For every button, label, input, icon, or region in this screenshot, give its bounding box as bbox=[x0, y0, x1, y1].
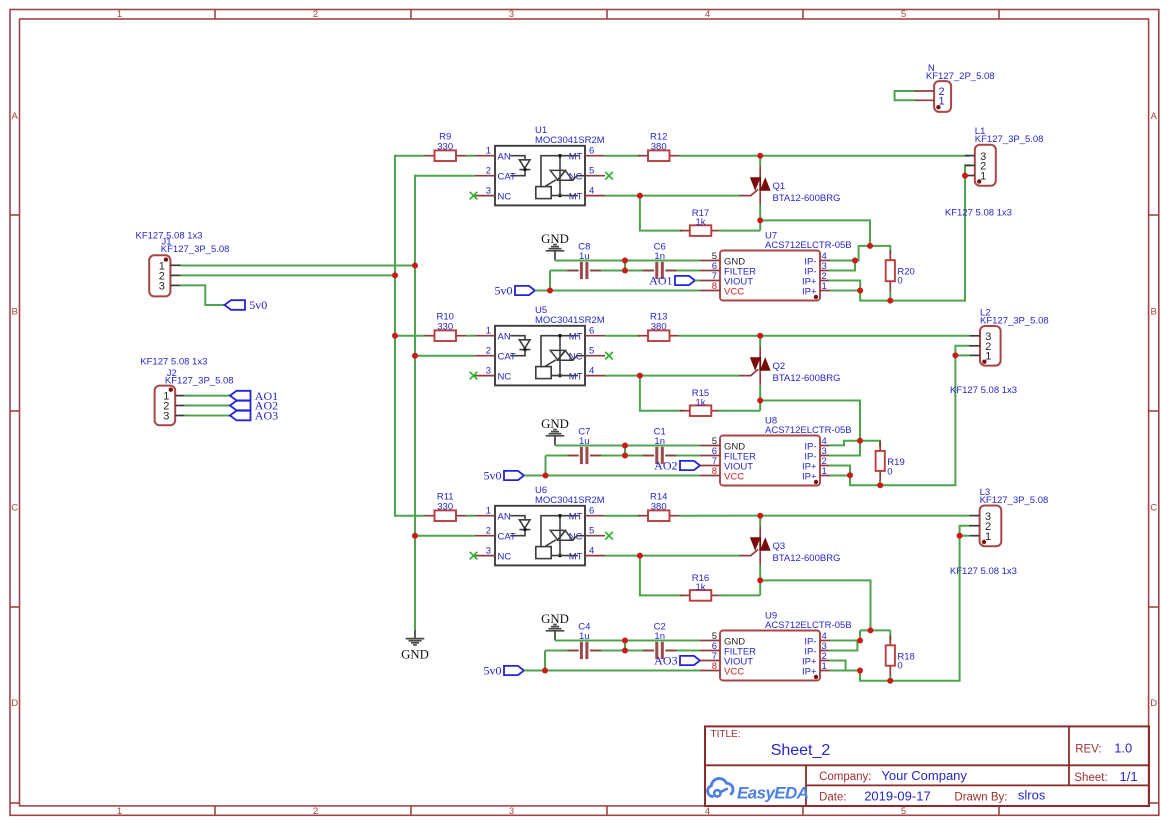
svg-text:C: C bbox=[1150, 502, 1157, 513]
capacitor C7 bbox=[568, 426, 602, 464]
svg-text:KF127_2P_5.08: KF127_2P_5.08 bbox=[926, 71, 995, 82]
wire L3 pin2 jog bbox=[960, 526, 970, 536]
svg-text:4: 4 bbox=[589, 185, 594, 196]
svg-text:1: 1 bbox=[117, 806, 122, 817]
svg-text:2: 2 bbox=[486, 346, 491, 357]
svg-text:3: 3 bbox=[163, 411, 169, 423]
svg-text:GND: GND bbox=[541, 417, 569, 431]
svg-text:AO3: AO3 bbox=[654, 654, 677, 668]
svg-text:MT: MT bbox=[569, 512, 583, 523]
wire J1 pin2 row bbox=[181, 274, 396, 276]
svg-text:1: 1 bbox=[486, 506, 491, 517]
svg-text:NC: NC bbox=[498, 551, 512, 562]
svg-text:KF127 5.08 1x3: KF127 5.08 1x3 bbox=[140, 357, 207, 368]
svg-text:Sheet:: Sheet: bbox=[1074, 772, 1107, 784]
junction bbox=[857, 288, 863, 294]
wire triac MT1 down bbox=[759, 205, 761, 230]
wire U8 pin4 jog bbox=[830, 441, 860, 446]
wire J2 to AO3 bbox=[185, 415, 230, 417]
junction bbox=[637, 373, 643, 379]
svg-text:Q3: Q3 bbox=[773, 541, 786, 552]
svg-text:0: 0 bbox=[897, 661, 902, 672]
resistor R17 bbox=[680, 208, 722, 236]
svg-text:5v0: 5v0 bbox=[484, 469, 502, 483]
svg-text:MT: MT bbox=[569, 332, 583, 343]
junction bbox=[412, 533, 418, 539]
wire U7 pin2 bbox=[830, 281, 860, 291]
wire node to pin4/pin3 bbox=[859, 246, 870, 261]
connector L2 labels bbox=[980, 307, 1049, 326]
svg-text:MT: MT bbox=[569, 191, 583, 202]
svg-text:KF127_3P_5.08: KF127_3P_5.08 bbox=[975, 134, 1044, 145]
wire gate loop left bbox=[640, 556, 682, 596]
svg-text:2: 2 bbox=[313, 806, 318, 817]
resistor R11 bbox=[425, 491, 467, 521]
svg-text:3: 3 bbox=[509, 806, 514, 817]
wire GND row bbox=[555, 260, 700, 262]
svg-text:VCC: VCC bbox=[724, 666, 744, 677]
wire node to R18 top bbox=[889, 630, 891, 640]
optocoupler U6 labels bbox=[535, 485, 605, 506]
IC U8 labels bbox=[765, 416, 852, 436]
svg-text:4: 4 bbox=[705, 9, 710, 20]
transistor Q1 BTA12-600BRG bbox=[740, 156, 840, 206]
resistor R9 bbox=[425, 131, 467, 161]
wire L1 pin2 jog bbox=[965, 165, 970, 175]
IC U7 ACS712ELCTR-05B bbox=[700, 251, 830, 301]
junction bbox=[622, 648, 628, 654]
wire U7 pin3 bbox=[830, 261, 855, 271]
net flag AO1 (J2) bbox=[230, 389, 278, 403]
transistor Q3 BTA12-600BRG bbox=[740, 516, 840, 566]
svg-text:1k: 1k bbox=[695, 397, 705, 408]
svg-text:MT: MT bbox=[569, 152, 583, 163]
wire gate loop left bbox=[640, 376, 682, 411]
svg-text:8: 8 bbox=[712, 466, 717, 477]
svg-text:EasyEDA: EasyEDA bbox=[737, 784, 809, 803]
svg-text:2: 2 bbox=[486, 526, 491, 537]
junction bbox=[392, 272, 398, 278]
wire GND row bbox=[555, 640, 700, 642]
wire trunk from J1 pin1 to GND (x=415) bbox=[414, 176, 416, 631]
svg-text:VCC: VCC bbox=[724, 471, 744, 482]
svg-text:5v0: 5v0 bbox=[495, 284, 513, 298]
wire U8 pin2 bbox=[830, 466, 850, 476]
resistor R15 bbox=[680, 388, 722, 416]
svg-text:KF127_3P_5.08: KF127_3P_5.08 bbox=[165, 375, 234, 386]
svg-text:2: 2 bbox=[486, 166, 491, 177]
wire R14 to L3 bbox=[679, 515, 969, 517]
connector N labels bbox=[926, 63, 995, 82]
svg-text:AN: AN bbox=[498, 152, 511, 163]
wire J2 to AO1 bbox=[185, 395, 230, 397]
svg-text:IP+: IP+ bbox=[802, 666, 817, 677]
svg-text:1: 1 bbox=[486, 326, 491, 337]
wire J1 pin1 row bbox=[181, 265, 416, 267]
junction bbox=[622, 453, 628, 459]
svg-text:MT: MT bbox=[569, 551, 583, 562]
EasyEDA logo bbox=[708, 778, 809, 802]
resistor R14 bbox=[638, 491, 680, 521]
wire J1 pin3 to 5v0 bbox=[181, 285, 225, 305]
net flag AO1 bbox=[649, 274, 695, 288]
svg-text:8: 8 bbox=[712, 661, 717, 672]
svg-text:1: 1 bbox=[822, 661, 827, 672]
svg-text:TITLE:: TITLE: bbox=[711, 729, 741, 740]
svg-text:A: A bbox=[12, 111, 19, 122]
optocoupler U1 labels bbox=[535, 125, 605, 146]
wire VIOUT row bbox=[695, 280, 700, 282]
capacitor C2 bbox=[643, 621, 677, 659]
connector L3 labels bbox=[980, 487, 1049, 506]
wire gate loop left bbox=[640, 196, 682, 231]
svg-text:GND: GND bbox=[401, 648, 429, 662]
junction bbox=[757, 333, 763, 339]
net flag AO3 (J2) bbox=[230, 409, 278, 423]
connector J1 bbox=[149, 255, 180, 296]
svg-text:ACS712ELCTR-05B: ACS712ELCTR-05B bbox=[765, 240, 852, 251]
svg-text:1u: 1u bbox=[579, 631, 590, 642]
junction bbox=[852, 258, 858, 264]
svg-text:Drawn By:: Drawn By: bbox=[954, 791, 1007, 803]
wire R20 bottom bbox=[889, 290, 891, 300]
net flag AO2 bbox=[654, 459, 700, 473]
wire VCC row bbox=[535, 290, 700, 292]
wire resistor to U pin1 bbox=[466, 335, 475, 337]
wire triac MT1 down bbox=[759, 565, 761, 595]
wire U8 pin1 bbox=[830, 475, 850, 477]
wire gate loop right bbox=[718, 594, 760, 596]
wire J2 to AO2 bbox=[185, 405, 230, 407]
resistor R12 bbox=[638, 131, 680, 161]
capacitor C1 bbox=[643, 426, 677, 464]
junction bbox=[637, 193, 643, 199]
svg-text:C: C bbox=[11, 502, 18, 513]
svg-text:1n: 1n bbox=[654, 436, 665, 447]
svg-text:BTA12-600BRG: BTA12-600BRG bbox=[773, 373, 841, 384]
connector L3 bbox=[969, 506, 1001, 547]
svg-text:Sheet_2: Sheet_2 bbox=[771, 742, 831, 759]
svg-text:3: 3 bbox=[486, 365, 491, 376]
junction bbox=[757, 577, 763, 583]
IC U8 ACS712ELCTR-05B bbox=[700, 436, 830, 486]
wire gate loop right bbox=[718, 230, 760, 232]
svg-text:330: 330 bbox=[437, 502, 453, 513]
svg-text:4: 4 bbox=[589, 365, 594, 376]
svg-text:1: 1 bbox=[822, 281, 827, 292]
svg-text:6: 6 bbox=[589, 326, 594, 337]
junction bbox=[622, 268, 628, 274]
net flag 5v0 (U8) bbox=[484, 469, 525, 483]
svg-text:0: 0 bbox=[897, 276, 902, 287]
svg-text:1: 1 bbox=[822, 466, 827, 477]
junction bbox=[867, 243, 873, 249]
ground (bottom of trunk) bbox=[401, 630, 429, 661]
junction bbox=[757, 217, 763, 223]
wire U8 pin3 bbox=[830, 441, 860, 456]
no-connect pin3 bbox=[470, 552, 478, 560]
junction bbox=[887, 678, 893, 684]
wire filter row segs bbox=[546, 446, 701, 476]
wire R9 row bbox=[395, 155, 425, 157]
wire node horizontal bbox=[860, 629, 890, 631]
wire U7 pin1 bbox=[830, 290, 860, 292]
svg-text:1: 1 bbox=[938, 95, 944, 107]
svg-text:AN: AN bbox=[498, 332, 511, 343]
svg-text:1u: 1u bbox=[579, 251, 590, 262]
svg-text:B: B bbox=[1151, 306, 1157, 317]
svg-text:5: 5 bbox=[589, 166, 594, 177]
junction bbox=[957, 533, 963, 539]
no-connect pin3 bbox=[470, 192, 478, 200]
svg-text:1: 1 bbox=[980, 171, 986, 183]
wire filter row segs bbox=[545, 641, 700, 671]
wire U9 pin4 bbox=[830, 640, 860, 642]
svg-text:4: 4 bbox=[705, 806, 710, 817]
connector N bbox=[915, 81, 951, 112]
ground (C7 group) bbox=[541, 417, 569, 446]
svg-text:IP+: IP+ bbox=[802, 471, 817, 482]
junction bbox=[857, 638, 863, 644]
wire Q3 MT1 to node bbox=[760, 580, 870, 630]
svg-text:380: 380 bbox=[651, 322, 667, 333]
connector L1 labels bbox=[975, 126, 1044, 145]
junction bbox=[637, 553, 643, 559]
wire U9 pin2 bbox=[830, 661, 860, 671]
wire node to R19 top bbox=[860, 441, 880, 446]
svg-text:1k: 1k bbox=[695, 582, 705, 593]
svg-text:BTA12-600BRG: BTA12-600BRG bbox=[773, 193, 841, 204]
svg-text:5v0: 5v0 bbox=[249, 298, 267, 312]
net flag 5v0 (U7) bbox=[495, 284, 536, 298]
junction bbox=[622, 443, 628, 449]
resistor R19 bbox=[876, 441, 905, 481]
resistor R18 bbox=[886, 635, 915, 675]
wire N pin2-pin1 loop bbox=[895, 91, 915, 100]
svg-text:6: 6 bbox=[589, 146, 594, 157]
wire pin6 to resistor bbox=[605, 155, 640, 157]
capacitor C6 bbox=[643, 241, 677, 279]
svg-text:Q2: Q2 bbox=[773, 361, 786, 372]
resistor R16 bbox=[680, 573, 722, 601]
IC U9 ACS712ELCTR-05B bbox=[700, 631, 830, 681]
capacitor C8 bbox=[568, 241, 602, 279]
junction bbox=[757, 398, 763, 404]
net flag AO2 (J2) bbox=[230, 399, 278, 413]
svg-text:1: 1 bbox=[486, 146, 491, 157]
svg-text:MT: MT bbox=[569, 371, 583, 382]
svg-text:Q1: Q1 bbox=[773, 181, 786, 192]
junction bbox=[412, 263, 418, 269]
wire R12 to L1 bbox=[679, 155, 970, 157]
IC U9 labels bbox=[765, 611, 852, 631]
svg-text:3: 3 bbox=[509, 9, 514, 20]
optocoupler U6 MOC3041SR2M bbox=[475, 506, 605, 566]
svg-text:5v0: 5v0 bbox=[484, 664, 502, 678]
svg-text:KF127_3P_5.08: KF127_3P_5.08 bbox=[980, 315, 1049, 326]
svg-text:1: 1 bbox=[985, 531, 991, 543]
title block bbox=[705, 726, 1149, 806]
svg-text:1n: 1n bbox=[654, 631, 665, 642]
wire trunk to CAT bbox=[415, 535, 475, 537]
wire L3 pin1 seg bbox=[960, 535, 970, 537]
wire pin4/gate row bbox=[605, 375, 740, 377]
svg-text:4: 4 bbox=[589, 545, 594, 556]
net flag AO3 bbox=[654, 654, 700, 668]
junction bbox=[952, 352, 958, 358]
wire R19 bottom bbox=[879, 480, 881, 486]
wire trunk from J1 pin2 (x=395) bbox=[394, 156, 396, 516]
svg-text:AO2: AO2 bbox=[654, 459, 677, 473]
svg-text:1: 1 bbox=[985, 351, 991, 363]
wire triac MT1 down bbox=[759, 385, 761, 410]
svg-text:2: 2 bbox=[313, 9, 318, 20]
svg-text:5: 5 bbox=[589, 346, 594, 357]
optocoupler U1 MOC3041SR2M bbox=[475, 146, 605, 206]
wire pin4/gate row bbox=[605, 555, 740, 557]
resistor R10 bbox=[425, 311, 467, 341]
svg-text:1/1: 1/1 bbox=[1120, 769, 1138, 784]
wire resistor to U pin1 bbox=[466, 155, 475, 157]
svg-text:330: 330 bbox=[437, 142, 453, 153]
ground (C8 group) bbox=[541, 232, 569, 261]
optocoupler U5 labels bbox=[535, 305, 605, 326]
wire L2 pin1 seg bbox=[955, 354, 969, 356]
wire pin6 to resistor bbox=[605, 335, 640, 337]
wire L2 pin2 jog bbox=[955, 346, 969, 356]
junction bbox=[962, 173, 968, 179]
wire Q1 MT1 to IP- node bbox=[760, 220, 870, 246]
wire bottom row to L1 pin1 bbox=[860, 176, 965, 301]
wire U9 pin3 bbox=[830, 641, 857, 651]
svg-text:6: 6 bbox=[589, 506, 594, 517]
wire bottom row to L2 pin1 bbox=[850, 355, 955, 485]
wire pin4/gate row bbox=[605, 195, 740, 197]
transistor Q2 BTA12-600BRG bbox=[740, 336, 840, 386]
svg-text:AO1: AO1 bbox=[649, 274, 672, 288]
junction bbox=[887, 298, 893, 304]
wire R10 row bbox=[395, 335, 425, 337]
svg-text:2019-09-17: 2019-09-17 bbox=[864, 788, 931, 803]
svg-text:0: 0 bbox=[887, 466, 892, 477]
junction bbox=[622, 638, 628, 644]
svg-text:380: 380 bbox=[651, 142, 667, 153]
svg-text:3: 3 bbox=[159, 281, 165, 293]
junction bbox=[547, 288, 553, 294]
junction bbox=[868, 627, 874, 633]
wire trunk to CAT bbox=[415, 175, 475, 177]
svg-text:ACS712ELCTR-05B: ACS712ELCTR-05B bbox=[765, 425, 852, 436]
svg-text:5: 5 bbox=[901, 806, 906, 817]
junction bbox=[857, 438, 863, 444]
junction bbox=[847, 472, 853, 478]
svg-text:VCC: VCC bbox=[724, 286, 744, 297]
resistor R13 bbox=[638, 311, 680, 341]
wire VCC row bbox=[524, 670, 700, 672]
svg-text:MOC3041SR2M: MOC3041SR2M bbox=[535, 495, 605, 506]
wire R18 bottom bbox=[889, 675, 891, 681]
no-connect pin5 bbox=[605, 352, 613, 360]
ground (C4 group) bbox=[541, 612, 569, 641]
junction bbox=[857, 668, 863, 674]
net flag 5v0 (U9) bbox=[484, 664, 525, 678]
svg-text:B: B bbox=[12, 306, 18, 317]
wire gate loop right bbox=[718, 410, 760, 412]
no-connect pin5 bbox=[605, 172, 613, 180]
svg-text:Date:: Date: bbox=[819, 791, 847, 803]
resistor R20 bbox=[886, 250, 915, 291]
wire node to R20 top bbox=[870, 246, 890, 252]
svg-text:KF127 5.08 1x3: KF127 5.08 1x3 bbox=[950, 566, 1017, 577]
wire pin6 to resistor bbox=[605, 515, 640, 517]
junction bbox=[542, 668, 548, 674]
svg-text:1n: 1n bbox=[654, 251, 665, 262]
svg-text:3: 3 bbox=[486, 185, 491, 196]
svg-text:CAT: CAT bbox=[498, 352, 516, 363]
svg-text:A: A bbox=[1151, 111, 1158, 122]
svg-text:Company:: Company: bbox=[819, 771, 871, 783]
svg-text:AN: AN bbox=[498, 512, 511, 523]
optocoupler U5 MOC3041SR2M bbox=[475, 326, 605, 386]
wire R13 to L2 bbox=[679, 335, 970, 337]
svg-text:KF127 5.08 1x3: KF127 5.08 1x3 bbox=[945, 208, 1012, 219]
svg-text:5: 5 bbox=[589, 526, 594, 537]
wire filter row segs bbox=[550, 261, 700, 291]
svg-text:330: 330 bbox=[437, 322, 453, 333]
svg-text:IP+: IP+ bbox=[802, 286, 817, 297]
no-connect pin5 bbox=[605, 532, 613, 540]
svg-text:CAT: CAT bbox=[498, 172, 516, 183]
svg-text:8: 8 bbox=[712, 281, 717, 292]
junction bbox=[877, 482, 883, 488]
svg-text:1.0: 1.0 bbox=[1114, 741, 1132, 756]
svg-text:NC: NC bbox=[498, 191, 512, 202]
junction bbox=[392, 333, 398, 339]
wire Q2 MT1 to node bbox=[760, 401, 860, 441]
svg-text:NC: NC bbox=[498, 371, 512, 382]
connector J2 bbox=[155, 386, 185, 426]
svg-text:D: D bbox=[11, 698, 18, 709]
junction bbox=[412, 353, 418, 359]
svg-text:KF127_3P_5.08: KF127_3P_5.08 bbox=[161, 244, 230, 255]
wire VIOUT row bbox=[699, 465, 701, 467]
svg-text:1: 1 bbox=[117, 9, 122, 20]
svg-text:AO3: AO3 bbox=[255, 409, 278, 423]
junction bbox=[757, 153, 763, 159]
wire pin4 node up bbox=[859, 630, 861, 640]
svg-text:REV:: REV: bbox=[1075, 744, 1101, 756]
junction bbox=[757, 513, 763, 519]
svg-text:Your Company: Your Company bbox=[881, 768, 967, 783]
connector L2 bbox=[970, 326, 1001, 366]
IC U7 labels bbox=[765, 231, 852, 251]
svg-text:CAT: CAT bbox=[498, 532, 516, 543]
svg-text:GND: GND bbox=[541, 232, 569, 246]
junction bbox=[622, 258, 628, 264]
connector J2 labels bbox=[140, 357, 233, 387]
wire bottom row to L3 pin1 bbox=[860, 536, 960, 681]
wire U7 pin4 bbox=[830, 260, 859, 262]
capacitor C4 bbox=[568, 621, 602, 659]
svg-text:1u: 1u bbox=[579, 436, 590, 447]
svg-text:3: 3 bbox=[486, 545, 491, 556]
wire GND row bbox=[555, 445, 700, 447]
wire R11 row bbox=[395, 515, 425, 517]
svg-text:D: D bbox=[1150, 698, 1157, 709]
svg-text:GND: GND bbox=[541, 612, 569, 626]
wire VIOUT row bbox=[699, 660, 701, 662]
svg-text:BTA12-600BRG: BTA12-600BRG bbox=[773, 553, 841, 564]
